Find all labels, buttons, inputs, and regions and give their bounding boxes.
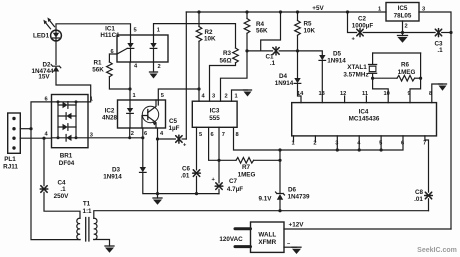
resistor R7 (236, 158, 280, 164)
connector PL1 box (8, 113, 21, 153)
node R5/D4 (296, 49, 299, 52)
svg-text:1: 1 (90, 97, 93, 103)
LED1 emission arrows (43, 17, 54, 28)
wire D4 to IC4 pin14 (298, 83, 302, 102)
T1 core (86, 218, 89, 242)
svg-text:6: 6 (144, 131, 147, 137)
wire D3 to ground bus (143, 172, 158, 193)
wire C1 line left (247, 50, 273, 52)
resistor R2 (196, 12, 202, 101)
svg-text:56K: 56K (92, 67, 104, 74)
svg-text:H11C1: H11C1 (100, 32, 120, 39)
zener D6 (276, 192, 285, 200)
svg-text:WALL: WALL (258, 231, 276, 238)
plug prong lower (235, 245, 251, 248)
svg-text:56Ω: 56Ω (219, 58, 231, 65)
svg-text:IC2: IC2 (105, 108, 115, 115)
IC4 pin2 stub (314, 136, 316, 142)
svg-text:2: 2 (131, 131, 134, 137)
wire +5V jog to C1 line (261, 12, 281, 51)
node bus ground (156, 192, 159, 195)
wire IC2 pin6 down (142, 128, 144, 167)
wire T1 right coil bottom to ground (94, 240, 110, 247)
svg-text:R7: R7 (242, 164, 251, 171)
capacitor C4 (40, 186, 48, 193)
svg-text:14: 14 (297, 91, 304, 97)
IC4 pin5 stub (380, 136, 382, 150)
wire IC2 pin5 to R2 line (158, 89, 199, 100)
svg-text:BR1: BR1 (60, 153, 73, 160)
crystal XTAL1 loop top (373, 52, 421, 54)
IC2 phototransistor (142, 100, 159, 128)
resistor R3 (233, 48, 239, 63)
ground at IC1 pin2 (150, 72, 158, 79)
IC1 internal diode pins 1-2 (150, 35, 157, 62)
minus stub (284, 246, 297, 248)
svg-text:8: 8 (236, 132, 239, 138)
wall transformer box (251, 222, 285, 252)
svg-text:MC145436: MC145436 (349, 116, 380, 123)
node loop left (371, 77, 374, 80)
LED1 (51, 30, 62, 41)
node C7 top (217, 159, 220, 162)
plug prong upper (235, 227, 251, 230)
svg-text:10K: 10K (304, 28, 316, 35)
svg-text:5: 5 (134, 28, 137, 34)
ground at IC3 pin1 (244, 90, 252, 97)
svg-text:250V: 250V (54, 193, 70, 200)
node C5 tap (156, 137, 159, 140)
capacitor C2 (352, 29, 364, 43)
node R5 top (296, 10, 299, 13)
wire loop to IC4 pin10 (373, 78, 389, 102)
svg-text:T1: T1 (83, 201, 91, 208)
svg-text:56K: 56K (256, 27, 268, 34)
svg-text:1MEG: 1MEG (398, 69, 416, 76)
IC4 pin1 stub (293, 136, 295, 142)
svg-text:12: 12 (340, 91, 346, 97)
svg-text:.1: .1 (437, 47, 443, 54)
wire IC2 pin5 stub (157, 100, 159, 105)
svg-text:C2: C2 (358, 16, 367, 23)
wire C2 to C3 (363, 32, 435, 34)
wire IC4 pin7 to C8 (425, 136, 429, 192)
opto IC2 box (118, 100, 166, 128)
svg-text:.1: .1 (270, 60, 276, 67)
wire R4 node to IC3 pin2 (221, 51, 248, 101)
svg-text:LED1: LED1 (33, 33, 50, 40)
svg-text:555: 555 (209, 115, 220, 122)
svg-text:R3: R3 (223, 50, 232, 57)
wire C4 to T1 left coil top (44, 192, 80, 218)
svg-text:1µF: 1µF (169, 125, 180, 132)
wire IC5 pin2 down (402, 21, 404, 33)
BR1 internal rails (52, 100, 89, 139)
diode D5 (319, 55, 326, 60)
wire BR1 pin6 to T1 left coil (31, 102, 80, 240)
node C2 branch (346, 10, 349, 13)
diode D4 (294, 78, 301, 83)
node C6 bus (195, 192, 198, 195)
svg-text:15V: 15V (38, 74, 50, 81)
wire C8 to bottom rail (428, 199, 430, 211)
svg-text:D6: D6 (288, 187, 297, 194)
node D6 bottom rail (278, 209, 281, 212)
svg-text:+12V: +12V (289, 222, 305, 229)
svg-text:4.7µF: 4.7µF (227, 186, 243, 193)
crystal XTAL1 (369, 53, 377, 78)
svg-text:R1: R1 (93, 60, 102, 67)
svg-text:1N914: 1N914 (275, 80, 294, 87)
svg-text:IC4: IC4 (359, 109, 369, 116)
svg-text:7: 7 (423, 141, 426, 147)
wire IC3 pin5 down (196, 127, 198, 170)
svg-text:1N914: 1N914 (103, 174, 122, 181)
wire BR1 pin3 to IC2 pin6 line (88, 137, 143, 139)
svg-text:7: 7 (222, 132, 225, 138)
wire IC2 pin2 stub (129, 128, 131, 138)
ground at T1 (105, 246, 114, 253)
bus under IC4 (280, 136, 403, 150)
wire LED1 top to IC1 pin5 (56, 24, 131, 35)
svg-text:5: 5 (199, 132, 202, 138)
svg-text:78L05: 78L05 (394, 13, 412, 20)
node R4 top (245, 10, 248, 13)
wire C1 to D5 corner (279, 51, 322, 55)
capacitor C6 (193, 170, 201, 177)
wire R5 node down (297, 51, 299, 78)
capacitor C8 (425, 192, 433, 199)
wire IC2 pin4 down to ground bus (157, 128, 159, 194)
wire PL1 row2 to vertical (20, 128, 31, 130)
resistor R5 (295, 12, 301, 51)
svg-text:120VAC: 120VAC (219, 236, 243, 243)
node pin8/D6 line (278, 148, 281, 151)
resistor R4 (244, 12, 250, 51)
IC4 pin12 stub (344, 96, 346, 103)
node riser (449, 31, 452, 34)
node PL1 vertical (29, 127, 32, 130)
IC1 pin4 wire down (129, 62, 131, 89)
wire PL1 row3 to BR1 pin4 (20, 137, 51, 139)
IC1 photo-SCR (117, 35, 134, 62)
+5V rail (186, 11, 386, 13)
svg-text:11: 11 (362, 91, 368, 97)
wire IC3 pin1 to ground (232, 90, 248, 101)
svg-text:4N28: 4N28 (102, 115, 118, 122)
PL1 contact dots (12, 117, 15, 150)
wire C7 drop (218, 160, 220, 183)
wire +5V rail drop to C5 line (185, 12, 187, 139)
svg-text:1: 1 (378, 7, 381, 13)
svg-text:PL1: PL1 (4, 156, 16, 163)
svg-text:1N4739: 1N4739 (287, 194, 310, 201)
svg-text:6: 6 (45, 97, 48, 103)
capacitor C5 (158, 135, 188, 148)
svg-text:R5: R5 (304, 21, 313, 28)
svg-text:6: 6 (211, 132, 214, 138)
wire IC3 pin6 to R7 (209, 127, 236, 160)
BR1 diode 2 (58, 113, 76, 120)
svg-text:13: 13 (319, 91, 325, 97)
regulator IC5 box (386, 3, 419, 22)
wire C4 drop (43, 138, 45, 186)
svg-text:C7: C7 (229, 178, 238, 185)
zener D2 (51, 65, 61, 72)
svg-text:D5: D5 (333, 51, 342, 58)
wire T1 right coil top to bottom rail (94, 211, 429, 219)
svg-text:1: 1 (133, 93, 136, 99)
wire D6 to bottom rail (279, 200, 281, 211)
ground at IC5 pin2 (398, 33, 408, 43)
svg-text:3: 3 (90, 133, 93, 139)
resistor R6 (373, 75, 421, 81)
node R2 top (197, 10, 200, 13)
IC4 pin4 stub (358, 136, 360, 150)
svg-text:C8: C8 (415, 189, 424, 196)
wire IC5 pin3 to riser (419, 12, 451, 229)
svg-text:IC3: IC3 (210, 108, 220, 115)
T1 left coil (77, 218, 80, 239)
svg-text:D3: D3 (112, 167, 121, 174)
wire XTAL loop right (420, 53, 422, 78)
svg-text:10K: 10K (204, 36, 216, 43)
svg-text:2: 2 (158, 64, 161, 70)
svg-text:2: 2 (225, 94, 228, 100)
svg-text:1: 1 (235, 94, 238, 100)
timer IC3 box (192, 101, 237, 127)
ground at wall xfmr (292, 247, 301, 254)
svg-text:1: 1 (157, 28, 160, 34)
wire IC3 pin8 right (234, 127, 281, 150)
svg-text:IC5: IC5 (398, 5, 408, 12)
wire IC2 pin1 stub (129, 89, 131, 100)
IC4 pin3 stub (336, 136, 338, 150)
BR1 diode 3 (58, 124, 76, 131)
T1 right coil (94, 218, 97, 239)
svg-text:1MEG: 1MEG (238, 172, 256, 179)
svg-text:1:1: 1:1 (82, 208, 92, 215)
svg-text:C5: C5 (169, 118, 178, 125)
bridge BR1 box (52, 95, 89, 148)
resistor R1 (107, 54, 130, 89)
svg-text:+5V: +5V (312, 5, 324, 12)
svg-text:C6: C6 (182, 166, 191, 173)
node C4 tap (42, 137, 45, 140)
svg-text:1N914: 1N914 (327, 58, 346, 65)
node R7/D6 line (278, 159, 281, 162)
capacitor C3 (435, 29, 441, 37)
node IC2 pin2 branch (128, 136, 131, 139)
IC4 pin11 stub (365, 96, 367, 103)
capacitor C7 (212, 177, 223, 189)
node loop right (419, 77, 422, 80)
svg-text:3.57MHz: 3.57MHz (343, 72, 368, 79)
wire C7 to bus (218, 189, 219, 193)
node +5V jog top (279, 10, 282, 13)
svg-text:R6: R6 (401, 62, 410, 69)
wire loop to IC4 pin9 (410, 78, 421, 102)
svg-text:.01: .01 (181, 173, 190, 180)
node D3 top (141, 136, 144, 139)
wire R3 bottom to IC3 pin3 (210, 63, 236, 101)
svg-text:.01: .01 (414, 196, 423, 203)
IC1 pin2 stub (153, 62, 155, 72)
node R4/C1 line (245, 49, 248, 52)
wire IC1 pin1 up and right to R3 (154, 24, 236, 48)
wire +12V output (284, 228, 451, 230)
wire D5 to IC4 pin13 (321, 60, 323, 102)
ground bus wire (158, 193, 220, 195)
svg-text:SeekIC.com: SeekIC.com (417, 247, 457, 254)
op-amp IC1 box (117, 35, 168, 62)
svg-text:1000µF: 1000µF (352, 23, 374, 30)
svg-text:XFMR: XFMR (258, 239, 276, 246)
wire D6 vertical (279, 150, 281, 193)
wire IC4 pin8 to ground (432, 84, 443, 103)
wire IC3 pin7 down (218, 127, 220, 160)
wire C3 to +12V riser (442, 32, 451, 34)
IC2 internal LED pins 1-2 (127, 100, 134, 128)
svg-text:3: 3 (212, 94, 215, 100)
svg-text:2: 2 (405, 24, 408, 30)
wire LED1 bottom to D2 (55, 41, 57, 65)
svg-text:D4: D4 (279, 73, 288, 80)
svg-text:DF04: DF04 (59, 160, 75, 167)
capacitor C1 (273, 47, 279, 55)
wire C6 to bus (196, 176, 198, 193)
node IC5 ground (401, 31, 404, 34)
svg-text:XTAL1: XTAL1 (347, 64, 367, 71)
BR1 diode 1 (58, 102, 76, 109)
svg-text:10: 10 (384, 91, 390, 97)
IC4 box (292, 103, 437, 136)
ground at bus (153, 194, 162, 205)
wire D2 to BR1 pin1 (56, 72, 91, 102)
diode D3 (140, 167, 147, 172)
node R1/IC1 pin4/IC2 pin1 (128, 87, 131, 90)
ground at IC4 pin8 (439, 84, 447, 91)
BR1 diode 4 (66, 135, 71, 142)
node R2/IC2 pin5 (197, 87, 200, 90)
wire C2 branch (348, 12, 357, 33)
svg-text:RJ11: RJ11 (3, 164, 18, 171)
svg-text:5: 5 (161, 93, 164, 99)
svg-text:9.1V: 9.1V (259, 196, 273, 203)
